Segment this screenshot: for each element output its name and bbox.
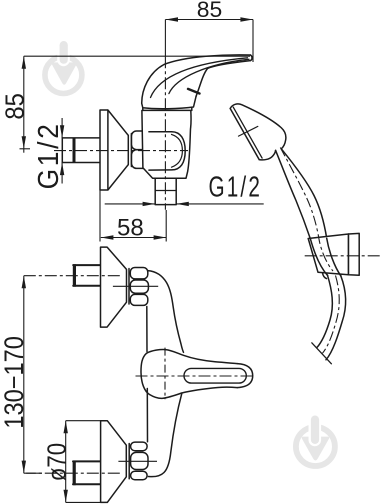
lever front edge bbox=[196, 61, 250, 97]
side view vertical centerline bbox=[164, 20, 166, 57]
body left edge lower bbox=[146, 389, 148, 442]
G1/2 left: arrows above and below wall pipe bbox=[61, 118, 63, 184]
body right edge upper (from top nut to hub) bbox=[148, 271, 184, 353]
hose outer curve bbox=[326, 276, 346, 360]
hose connector below holder bbox=[323, 273, 327, 279]
shower handle left edge bbox=[276, 150, 328, 275]
front view top stub centerline bbox=[24, 275, 120, 277]
holder wall plate bbox=[349, 233, 360, 275]
dim 85v bottom tick bbox=[20, 148, 31, 150]
holder cup bbox=[308, 234, 348, 275]
svg-text:G1/2: G1/2 bbox=[33, 121, 65, 189]
watermark logo top-left bbox=[45, 39, 82, 94]
hose inner curve bbox=[317, 275, 333, 348]
lever inner contour curve 1 bbox=[151, 58, 248, 98]
wall supply pipe (left stub) bbox=[62, 138, 100, 163]
svg-text:85: 85 bbox=[197, 0, 223, 22]
top hex nut bbox=[130, 268, 148, 306]
bottom wall stub nut face thick line bbox=[73, 461, 76, 486]
top flange escutcheon bbox=[101, 247, 127, 327]
side view pipe centerline bbox=[54, 150, 188, 152]
top wall stub nut face thick line bbox=[73, 264, 76, 287]
dim 85 vertical top reference line bbox=[24, 55, 250, 57]
outlet thread line bbox=[155, 190, 176, 192]
body left edge upper bbox=[146, 307, 148, 352]
shower handle centerline bbox=[280, 148, 333, 272]
watermark logo bottom-right bbox=[296, 413, 335, 466]
front view top nut centerline bbox=[113, 285, 158, 287]
shower head face outer line bbox=[230, 109, 259, 160]
handle collar bbox=[143, 108, 192, 111]
bottom hex nut bbox=[131, 442, 148, 480]
bottom flange ring bbox=[128, 444, 130, 479]
shower head chin bbox=[259, 150, 275, 159]
dim 58 line bbox=[101, 237, 166, 239]
dim ø70 line bbox=[65, 421, 67, 503]
dim 85 vertical line bbox=[23, 56, 25, 153]
dim 85h right extension line bbox=[252, 20, 254, 63]
pipe nut face thick line bbox=[73, 138, 76, 163]
dim 58 arrows bbox=[101, 235, 114, 239]
hub / arm top edge bbox=[147, 350, 238, 364]
svg-text:58: 58 bbox=[117, 215, 144, 242]
front view hub horizontal centerline bbox=[136, 375, 256, 377]
svg-text:ø70: ø70 bbox=[41, 443, 71, 482]
bottom flange escutcheon bbox=[101, 421, 127, 503]
handle skirt bbox=[142, 96, 196, 109]
dim 130-170 arrows bbox=[22, 276, 26, 289]
front view bottom stub centerline bbox=[24, 472, 120, 474]
dimension 58: extension lines bbox=[100, 190, 166, 242]
valve body (side view) bbox=[142, 110, 191, 178]
svg-text:85: 85 bbox=[0, 93, 30, 120]
hex nut (side view) bbox=[132, 131, 149, 168]
front view bottom nut centerline bbox=[118, 460, 157, 462]
top wall stub bbox=[73, 265, 101, 286]
body right edge lower (hub to bottom nut) bbox=[148, 393, 182, 477]
lever arm tip cap (front view) bbox=[237, 364, 252, 388]
G1/2 bottom outlet: arrows at outlet pipe bbox=[105, 203, 264, 205]
body lower housing outlet pipe bbox=[155, 178, 176, 204]
cartridge dome inner contour bbox=[149, 132, 185, 170]
front view hub vertical centerline bbox=[164, 348, 166, 400]
bottom wall stub bbox=[73, 461, 100, 484]
holder horizontal centerline bbox=[305, 255, 380, 257]
dome inner arc bbox=[172, 134, 183, 167]
lever inner contour curve 2 bbox=[169, 59, 249, 93]
face section tick bbox=[239, 126, 258, 136]
shower head outline bbox=[230, 104, 286, 149]
dim 85h arrows bbox=[165, 17, 178, 21]
handle lines inside holder cup bbox=[310, 238, 341, 276]
shower handle right edge bbox=[281, 149, 341, 276]
lever arm inner slot bbox=[184, 368, 246, 383]
lever tip cap bbox=[251, 55, 253, 61]
shower head face inner line bbox=[233, 107, 262, 158]
flange ring bbox=[130, 134, 132, 167]
hose centerline bbox=[323, 276, 340, 354]
dim 130-170 bottom tick bbox=[26, 472, 42, 474]
dim 85v arrows bbox=[22, 56, 26, 69]
hub outline and arm bottom edge bbox=[141, 353, 237, 398]
svg-text:G1/2: G1/2 bbox=[209, 172, 263, 204]
wall flange escutcheon (side view) bbox=[100, 110, 128, 190]
dimension 130-170: line bbox=[23, 276, 25, 474]
lever temperature tab bbox=[188, 89, 200, 94]
svg-text:130−170: 130−170 bbox=[0, 336, 29, 429]
dimension ø70: extension lines bbox=[66, 421, 102, 503]
dimension 85 horizontal: line bbox=[165, 19, 253, 21]
lever handle (side view) back outline bbox=[142, 55, 251, 103]
top flange ring bbox=[128, 269, 130, 305]
hose break cut line bbox=[312, 343, 332, 364]
dim ø70 arrows bbox=[64, 421, 68, 434]
side view vertical centerline dash-dot part bbox=[164, 56, 166, 210]
